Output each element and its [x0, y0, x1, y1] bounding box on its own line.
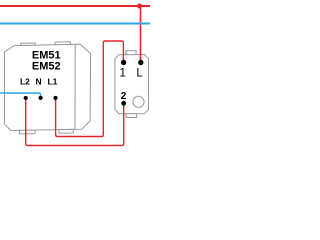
- terminal dot L1: [53, 96, 57, 100]
- terminal dot L2: [24, 96, 28, 100]
- wire: red from L2 terminal to terminal 2: [26, 98, 124, 146]
- right box top tab: [126, 51, 136, 55]
- wire: neutral supply line N (blue): [0, 23, 150, 25]
- node: junction on phase line: [137, 4, 142, 9]
- right box auxiliary unit outline: [115, 55, 149, 114]
- svg-text:1: 1: [119, 67, 125, 79]
- wire: red drop from junction to terminal L: [140, 6, 142, 63]
- terminal dot 2: [121, 101, 126, 106]
- left box EM51/EM52 module outline: [5, 44, 91, 130]
- left box bottom tab 2: [59, 129, 73, 133]
- terminal dot 1: [121, 60, 126, 65]
- left box bottom tab 1: [19, 130, 35, 134]
- svg-text:N: N: [36, 77, 42, 87]
- terminal dot N: [39, 96, 43, 100]
- svg-text:L: L: [136, 67, 143, 79]
- right box bottom tab: [126, 114, 137, 118]
- terminal dot L: [138, 60, 143, 65]
- svg-text:2: 2: [121, 91, 127, 102]
- wire: blue branch to N terminal: [0, 93, 41, 98]
- wire: phase supply line L (red): [0, 5, 150, 7]
- left box top tab 2: [55, 42, 70, 45]
- svg-text:L1: L1: [47, 77, 57, 87]
- screw circle in right box: [133, 96, 144, 107]
- left box top tab 1: [21, 43, 36, 45]
- wire: red from L1 terminal to terminal 1: [56, 41, 124, 137]
- left box flange separation line: [74, 44, 76, 129]
- svg-text:EM52: EM52: [32, 60, 61, 72]
- svg-text:L2: L2: [20, 77, 30, 87]
